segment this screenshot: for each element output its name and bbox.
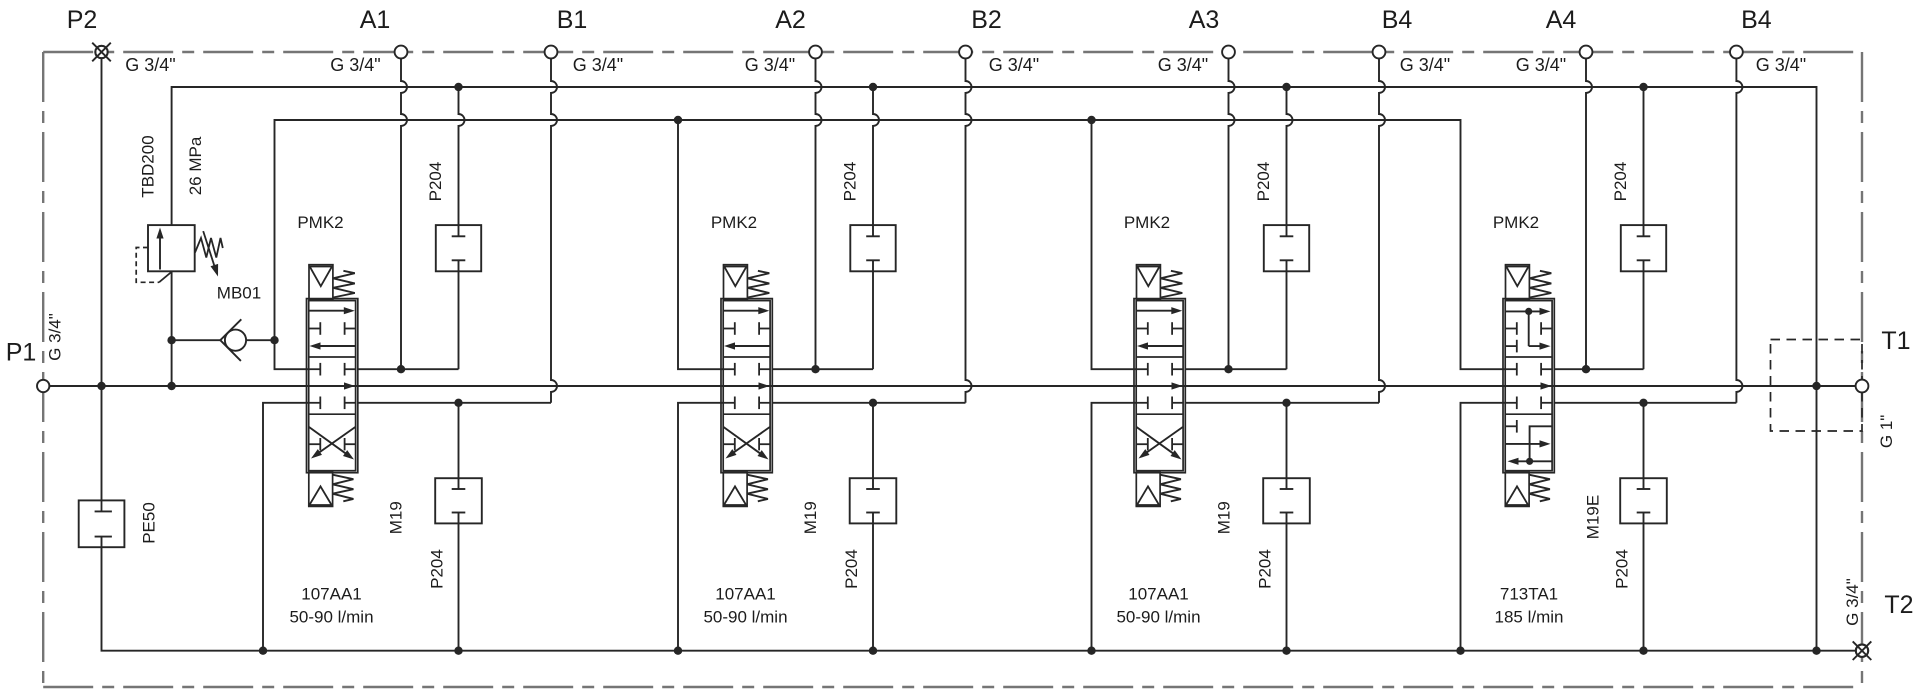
svg-text:P204: P204 [1254, 162, 1273, 202]
svg-text:G 3/4": G 3/4" [745, 55, 795, 75]
svg-text:M19E: M19E [1584, 495, 1603, 539]
svg-text:G 3/4": G 3/4" [573, 55, 623, 75]
svg-text:T1: T1 [1881, 327, 1910, 355]
svg-text:P2: P2 [67, 6, 98, 34]
svg-text:A2: A2 [775, 6, 806, 34]
svg-text:B4: B4 [1382, 6, 1413, 34]
svg-text:107AA1: 107AA1 [715, 585, 776, 604]
svg-text:G 3/4": G 3/4" [1843, 578, 1862, 626]
svg-text:50-90 l/min: 50-90 l/min [703, 608, 787, 627]
svg-text:107AA1: 107AA1 [301, 585, 362, 604]
svg-text:PE50: PE50 [140, 502, 159, 544]
svg-text:P204: P204 [1613, 549, 1632, 589]
svg-text:P1: P1 [6, 339, 37, 367]
svg-text:TBD200: TBD200 [139, 135, 158, 197]
svg-text:G 3/4": G 3/4" [125, 55, 175, 75]
svg-text:B2: B2 [971, 6, 1002, 34]
svg-text:G 1": G 1" [1877, 415, 1896, 448]
svg-text:T2: T2 [1884, 591, 1913, 619]
svg-text:P204: P204 [841, 162, 860, 202]
svg-text:G 3/4": G 3/4" [45, 313, 64, 361]
svg-text:M19: M19 [1215, 501, 1234, 534]
svg-text:G 3/4": G 3/4" [989, 55, 1039, 75]
svg-text:185 l/min: 185 l/min [1495, 608, 1564, 627]
svg-text:50-90 l/min: 50-90 l/min [1116, 608, 1200, 627]
svg-text:P204: P204 [1256, 549, 1275, 589]
svg-text:G 3/4": G 3/4" [330, 55, 380, 75]
svg-text:MB01: MB01 [217, 283, 261, 302]
svg-text:G 3/4": G 3/4" [1516, 55, 1566, 75]
svg-text:107AA1: 107AA1 [1128, 585, 1189, 604]
svg-text:B4: B4 [1741, 6, 1772, 34]
svg-text:P204: P204 [426, 162, 445, 202]
svg-text:M19: M19 [801, 501, 820, 534]
svg-text:PMK2: PMK2 [297, 213, 343, 232]
svg-text:26 MPa: 26 MPa [186, 136, 205, 195]
svg-text:G 3/4": G 3/4" [1158, 55, 1208, 75]
svg-text:P204: P204 [428, 549, 447, 589]
svg-text:PMK2: PMK2 [1124, 213, 1170, 232]
svg-text:A4: A4 [1546, 6, 1577, 34]
svg-text:G 3/4": G 3/4" [1400, 55, 1450, 75]
svg-text:PMK2: PMK2 [711, 213, 757, 232]
svg-text:PMK2: PMK2 [1493, 213, 1539, 232]
svg-text:A3: A3 [1189, 6, 1220, 34]
svg-text:G 3/4": G 3/4" [1756, 55, 1806, 75]
svg-text:713TA1: 713TA1 [1500, 585, 1558, 604]
svg-text:A1: A1 [360, 6, 391, 34]
svg-text:B1: B1 [557, 6, 588, 34]
svg-text:P204: P204 [1611, 162, 1630, 202]
svg-text:50-90 l/min: 50-90 l/min [289, 608, 373, 627]
svg-text:P204: P204 [842, 549, 861, 589]
svg-text:M19: M19 [387, 501, 406, 534]
